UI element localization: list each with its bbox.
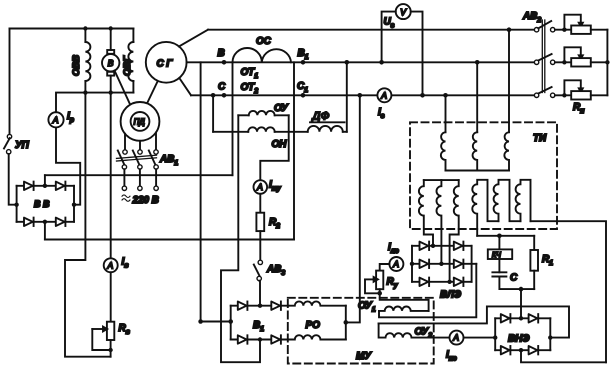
diode VNE D2 [529, 314, 539, 322]
wire OU1 return to VLE [379, 264, 476, 318]
inductor TI secondary s2 [437, 180, 442, 264]
svg-text:С: С [218, 82, 226, 93]
rectifier VV bridge frame [17, 186, 74, 222]
wire OU-ON right junction down [260, 115, 288, 180]
wire V right lead [411, 12, 423, 96]
rheostat Rn2 [555, 47, 608, 66]
wire AV3 to V1 ac1 [258, 281, 261, 306]
shaft SG to PD [147, 81, 159, 105]
winding OU2 [379, 323, 450, 337]
node B1 [301, 60, 306, 65]
node B [222, 60, 227, 65]
rheostat Rn1 [555, 15, 608, 34]
diode VV D4 [56, 218, 66, 226]
svg-text:В В: В В [34, 199, 50, 209]
svg-text:А: А [107, 260, 114, 270]
inductor DF [308, 126, 347, 132]
svg-text:ОС: ОС [256, 36, 272, 47]
winding RO top [289, 301, 346, 305]
wire V machine bottom [110, 76, 112, 259]
wire Ip bottom to VV [56, 127, 80, 204]
wire TI phase b drop [476, 62, 478, 132]
junction V1 dc left [228, 319, 233, 324]
box MU dashed [288, 298, 434, 364]
svg-text:ТИ: ТИ [533, 133, 547, 144]
wire OVV excitation loop left [65, 93, 111, 357]
transformer OT left leg [232, 62, 234, 175]
rheostat Rn3 [555, 80, 608, 99]
ammeter Ine [450, 331, 464, 345]
svg-text:ОН: ОН [272, 139, 288, 150]
breaker AV2 pole1 [534, 21, 555, 32]
wire Ile to Ru [380, 264, 390, 271]
junction C1 drop [358, 93, 363, 98]
junction VV dc right [72, 203, 76, 207]
wire Ip top [56, 93, 85, 113]
wire RO output to C1 drop [346, 95, 360, 322]
svg-text:ДФ: ДФ [311, 111, 330, 123]
wire DF up to B line [346, 62, 348, 132]
wire Ru to OU1 feed [380, 293, 429, 311]
svg-text:ОВВ: ОВВ [71, 55, 82, 76]
diode V1 D3 [238, 335, 248, 343]
diode VNE D1 [501, 314, 511, 322]
junction RO output [344, 320, 349, 325]
inductor TI secondary s3 [450, 180, 459, 282]
wire V left lead [382, 12, 396, 63]
exciter machine V [102, 50, 119, 76]
inductor TI primary 3 [504, 132, 509, 170]
junction VV dc left [14, 203, 18, 207]
junction VV ac2 [43, 220, 47, 224]
wire TI primary neutral [446, 170, 510, 172]
svg-text:А: А [392, 259, 399, 269]
wire C line right of ammeter [391, 94, 534, 96]
terminal 220V c [154, 186, 158, 190]
junction DF at B line [345, 60, 350, 65]
wire Rn bus [606, 30, 608, 96]
wire OT secondary to VV (y=175) [45, 174, 233, 176]
diode VNE D4 [529, 346, 539, 354]
wire TI secondary left top join [424, 179, 459, 181]
svg-text:МУ: МУ [356, 351, 372, 362]
wire zigzag out to right bus [531, 221, 607, 362]
wire B-line vertical to V1 dc left [201, 62, 231, 321]
junction Rn3 tap [562, 93, 566, 97]
junction OVV top [83, 26, 87, 30]
svg-text:А: А [380, 90, 387, 100]
wire VV ac2 stub [44, 222, 46, 240]
wire KCh to cap [498, 259, 500, 272]
junction OVV bottom [83, 90, 87, 94]
junction VNE bottom [519, 348, 523, 352]
diode V1 D1 [238, 302, 248, 310]
wire V machine top [110, 29, 112, 51]
diode V1 D2 [271, 302, 281, 310]
rectifier VLE rails [412, 246, 476, 282]
junction C line to ON [211, 93, 216, 98]
junction TI c [443, 93, 448, 98]
node C [222, 93, 227, 98]
wire Ine to VNE [464, 337, 496, 339]
ammeter Ig [377, 88, 391, 102]
junction VNE right [548, 335, 552, 339]
diode VLE D4 [454, 260, 464, 268]
block KCh [488, 249, 512, 259]
inductor OVG [128, 29, 133, 93]
diode VNE D3 [501, 346, 511, 354]
junction corner [198, 319, 203, 324]
svg-text:А: А [256, 182, 263, 192]
wire TI phase c drop [445, 95, 447, 132]
breaker AV2 linkage bar [542, 20, 545, 93]
wire AV1 pole drops [124, 169, 156, 185]
breaker AV1 linkage bar [117, 155, 157, 161]
capacitor C [492, 272, 506, 276]
transformer OT right leg [293, 62, 295, 239]
junction TI a [507, 27, 512, 32]
wire exciter bottom bus [85, 92, 133, 94]
junction Rn bus [605, 60, 609, 64]
junction VLE dc left [410, 262, 414, 266]
wire R2 to AV3 [259, 231, 261, 260]
junction Rn2 tap [562, 60, 566, 64]
svg-text:В: В [218, 48, 225, 59]
terminal 220V b [138, 186, 142, 190]
inductor TI secondary s6 zigzag [516, 180, 531, 221]
resistor R2 [256, 213, 264, 231]
inductor TI secondary s5 zigzag [494, 180, 521, 221]
junction V machine bottom [109, 90, 113, 94]
junction V right at C line [420, 93, 425, 98]
diode VLE D5 [420, 278, 430, 286]
wire Imu to R2 [259, 194, 261, 213]
svg-text:ПД: ПД [134, 118, 146, 127]
junction V left at B line [379, 60, 384, 65]
switch AV3 [254, 260, 263, 281]
wire C dot down to ON line [212, 95, 214, 132]
junction Rv bottom [108, 348, 112, 352]
voltmeter V [396, 4, 411, 19]
breaker AV2 pole2 [534, 54, 555, 65]
shaft V to PD [115, 71, 132, 108]
motor PD [121, 102, 160, 141]
rheostat Rv [92, 322, 114, 357]
ammeter Ile [389, 257, 403, 271]
ammeter Ip [48, 112, 63, 127]
junction VLE phase1 [431, 244, 435, 248]
label DF underline [310, 121, 345, 123]
diode V1 D4 [271, 335, 281, 343]
breaker AV1 lower contacts [122, 165, 158, 169]
winding OU1 [379, 306, 429, 310]
box TI dashed [410, 122, 557, 229]
node C1 [301, 93, 306, 98]
breaker AV1 blades [118, 151, 156, 166]
junction VNE left [493, 335, 497, 339]
wire OU-ON left junction down to V1 ac2 [221, 115, 260, 362]
wire top-left bus [10, 28, 134, 30]
diode VV D2 [56, 182, 66, 190]
inductor TI secondary s4 zigzag [472, 180, 498, 236]
junction VV ac1 [43, 184, 47, 188]
svg-text:С Г: С Г [157, 59, 174, 70]
wire VNE feed drop [520, 289, 522, 318]
winding RO bottom [289, 335, 346, 339]
rectifier V1 rails [231, 306, 289, 340]
inductor TI secondary s1 [419, 180, 433, 246]
switch UP [4, 134, 12, 154]
winding OS arcs on B line [233, 48, 292, 62]
label 220V [122, 195, 130, 201]
wire cap to bottom node [499, 277, 534, 290]
junction V1 ac2 [258, 337, 262, 341]
generator SG [146, 42, 187, 83]
breaker AV1 pole stubs [124, 134, 126, 150]
inductor OVV [85, 29, 90, 93]
svg-text:УП: УП [15, 140, 30, 151]
diode VLE D3 [420, 260, 430, 268]
svg-text:РО: РО [306, 320, 321, 331]
wire B line [187, 61, 535, 63]
svg-text:220 В: 220 В [132, 195, 159, 206]
diode VLE D6 [454, 278, 464, 286]
diode VV D3 [24, 218, 34, 226]
junction V1 ac1 [258, 304, 262, 308]
wire H1 (y=239.5) [45, 239, 294, 241]
svg-text:ОВГ: ОВГ [122, 55, 133, 76]
inductor TI primary 2 [473, 132, 478, 170]
junction TI b [475, 60, 480, 65]
svg-text:ВНЭ: ВНЭ [508, 334, 530, 345]
breaker AV2 pole3 [534, 87, 555, 98]
junction V machine top [109, 26, 113, 30]
ammeter Imu [253, 180, 267, 194]
junction Rn1 tap [562, 28, 566, 32]
wire UP to VV bridge [9, 154, 17, 205]
winding OU [238, 111, 288, 115]
breaker AV1 upper contacts [123, 150, 158, 154]
wire Iv to Rv [110, 272, 112, 321]
wire VNE right to OU2 [379, 306, 569, 337]
wire RO right rail [345, 306, 347, 340]
wire VV ac1 stub [44, 175, 46, 186]
svg-text:С: С [510, 273, 518, 284]
resistor R1 [530, 236, 538, 289]
rectifier VNE rails [495, 318, 550, 350]
wire TI phase a drop [508, 30, 510, 133]
wire KCh stub [498, 236, 500, 250]
diode VLE D2 [454, 242, 464, 250]
winding ON [213, 127, 308, 132]
junction Ru bottom [377, 291, 382, 296]
terminal 220V a [122, 186, 126, 190]
wire C line left of ammeter [191, 94, 377, 96]
junction VLE phase2 [439, 262, 443, 266]
svg-text:КЧ: КЧ [492, 252, 501, 259]
rheostat Ru [365, 271, 383, 294]
wire UP drop [9, 29, 11, 135]
junction VNE feed [519, 287, 524, 292]
ammeter Iv [104, 258, 118, 272]
inductor TI primary 1 [441, 132, 446, 170]
wire SG to C line diagonal [180, 78, 192, 95]
diode VLE D1 [420, 242, 430, 250]
svg-text:ВЛЭ: ВЛЭ [440, 290, 462, 301]
junction KCh feed [497, 234, 502, 239]
wire KCh-R1 feed [477, 235, 534, 237]
wire top bus [208, 29, 534, 31]
wire VNE bottom out [521, 350, 606, 362]
junction VNE top [519, 316, 523, 320]
svg-text:А: А [52, 115, 59, 125]
wire SG to top bus diagonal [179, 30, 208, 47]
svg-text:В: В [108, 58, 114, 68]
svg-text:А: А [452, 333, 459, 343]
diode VV D1 [24, 182, 34, 190]
svg-text:ОУ: ОУ [274, 103, 289, 114]
junction VLE phase3 [447, 280, 451, 284]
